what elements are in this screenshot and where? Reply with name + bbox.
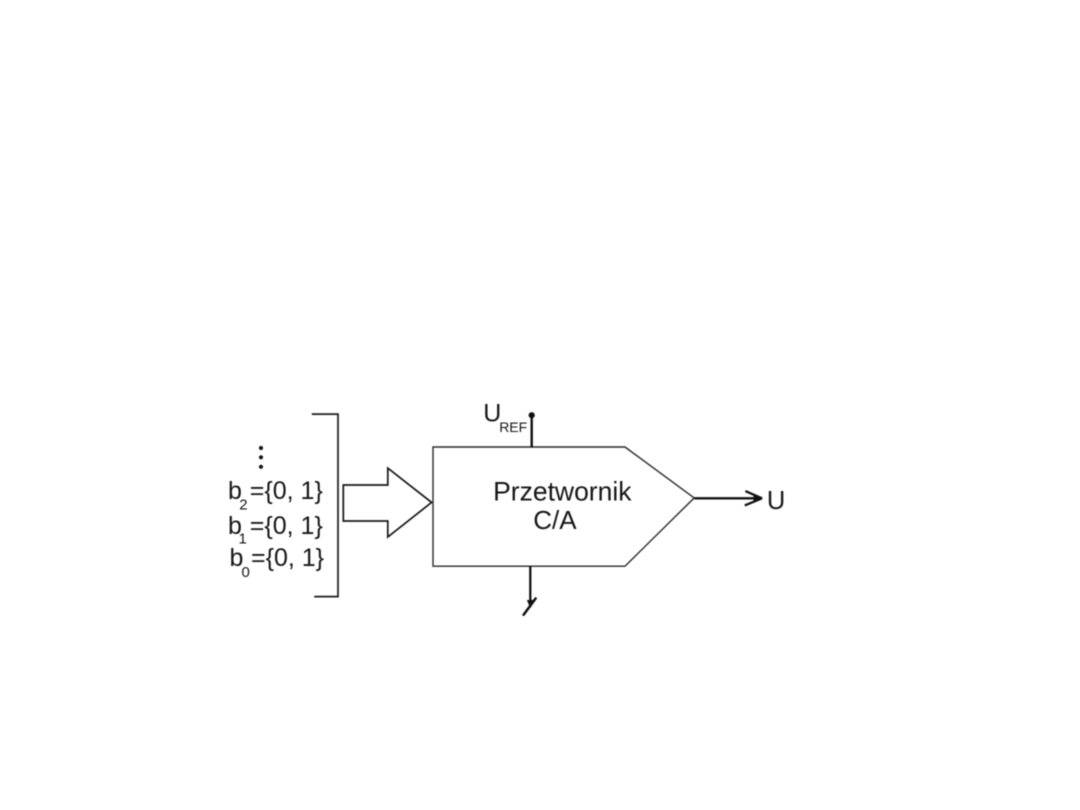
output wire U <box>695 497 760 499</box>
svg-text:U: U <box>767 487 785 515</box>
svg-text:b2={0, 1}: b2={0, 1} <box>228 477 323 514</box>
output arrowhead tip fill <box>754 495 763 502</box>
output arrowhead <box>745 491 762 505</box>
bit label b2 ={0, 1} <box>228 477 323 514</box>
tick mark across bottom arrowhead <box>524 599 536 615</box>
svg-text:C/A: C/A <box>533 505 577 535</box>
bit label b0 ={0, 1} <box>230 544 325 581</box>
bit label b1 ={0, 1} <box>228 512 323 548</box>
svg-text:Przetwornik: Przetwornik <box>493 477 632 507</box>
U_REF wire into top of block <box>531 415 533 448</box>
bottom arrowhead <box>527 600 535 608</box>
bottom wire out of block <box>529 567 531 601</box>
block arrow from bits into converter <box>343 468 431 537</box>
svg-text:b1={0, 1}: b1={0, 1} <box>228 512 323 548</box>
converter block outline (Przetwornik C/A) <box>433 447 694 566</box>
svg-text:UREF: UREF <box>483 399 527 435</box>
svg-text:b0={0, 1}: b0={0, 1} <box>230 544 325 581</box>
bracket grouping input bits <box>312 414 338 596</box>
node dot on U_REF wire <box>529 412 535 418</box>
vertical ellipsis above bit labels <box>259 446 263 469</box>
